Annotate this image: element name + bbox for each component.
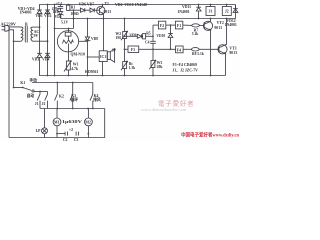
svg-text:VD3: VD3 [32,57,39,61]
zener VD5 [58,12,64,16]
wire plug to mains drop [9,30,13,88]
wire sensor to IC [88,56,100,58]
wire bottom rail [9,109,105,138]
wire heater feed [54,5,56,76]
wire bridge right leg [47,5,49,76]
svg-text:VD8: VD8 [91,37,98,41]
svg-text:VD11: VD11 [182,5,191,9]
wire capacitor branch [57,133,65,135]
potentiometer W1 [68,52,70,61]
IC1 box [103,19,105,51]
wire bridge left leg [39,14,41,54]
svg-text:VD6 VD7: VD6 VD7 [79,2,95,6]
svg-text:K3: K3 [71,94,76,98]
svg-text:J1: J1 [209,10,213,14]
svg-text:1N4001: 1N4001 [177,10,189,14]
relay contact J1 [39,92,41,95]
svg-text:C2: C2 [63,138,68,141]
svg-text:1M: 1M [115,36,121,40]
diode VD10 [170,25,172,33]
relay contact J2 [47,92,49,95]
diode VD9 [137,34,141,38]
capacitor C2 [65,132,67,136]
wire motor rail [40,108,105,110]
wire right rail [235,5,237,19]
svg-text:1N4001: 1N4001 [20,11,32,15]
svg-text:R5: R5 [146,31,151,35]
wire mains neutral drop [8,27,10,138]
switch K2 [56,83,58,95]
svg-text:手动: 手动 [29,78,37,83]
svg-text:20k: 20k [157,65,164,69]
svg-text:R8 5.1k: R8 5.1k [192,52,204,56]
node dots top rail [47,4,228,6]
svg-text:AC220V: AC220V [1,21,16,26]
capacitor C4 [150,41,156,43]
svg-text:9013: 9013 [229,51,237,55]
svg-text:VD4: VD4 [42,57,49,61]
svg-text:KD9561: KD9561 [85,70,98,74]
svg-text:SP: SP [112,49,117,53]
svg-text:F1: F1 [177,24,181,28]
diode VD3 [37,53,42,57]
transformer B secondary [31,27,33,41]
diode VD12 [233,9,238,13]
relay coil J2 [222,7,231,16]
potentiometer W3 [151,61,155,68]
wire top rail VDD [40,5,236,10]
switch K1 [14,87,23,89]
svg-text:9013: 9013 [104,10,112,14]
resistor R5 [142,35,143,37]
capacitor C3 [76,132,78,136]
wire F2 input node [152,25,154,41]
svg-text:LP: LP [36,129,42,133]
svg-text:9013: 9013 [214,26,222,30]
transistor VT1 [97,6,105,14]
diode VD4 [45,53,50,57]
transistor VT3 [218,45,227,54]
svg-text:M2: M2 [85,120,91,124]
transformer core [25,26,27,43]
motor M1 [56,109,58,119]
switch K3 [72,83,74,95]
svg-text:×2: ×2 [69,128,73,132]
svg-text:QM-N10: QM-N10 [71,52,85,56]
svg-text:16V: 16V [53,10,60,14]
wire primary bottom [14,40,21,42]
diode VD1 [37,10,42,14]
svg-text:M1: M1 [54,120,60,124]
svg-text:J1: J1 [35,102,39,106]
svg-text:T1: T1 [105,2,110,6]
svg-text:C3: C3 [74,138,79,141]
gas sensor QM-N10 [57,31,78,52]
svg-text:J2: J2 [225,10,229,14]
potentiometer W2 [124,19,126,32]
svg-text:VD10: VD10 [156,34,165,38]
svg-text:R1: R1 [71,5,76,9]
transformer B primary [20,27,23,41]
diode VD2 [45,10,50,14]
svg-text:F3: F3 [131,48,135,52]
diode VD7 [90,8,94,12]
svg-text:VT2: VT2 [217,21,224,25]
svg-text:F4: F4 [177,48,181,52]
wire ground rail [40,58,226,76]
diode VD11 [198,5,200,8]
wire +5V rail [61,18,236,20]
transistor VT2 [203,21,212,30]
plug AC220V [2,25,10,31]
inverter F1 [175,21,182,29]
svg-text:K4: K4 [94,94,99,98]
svg-text:排风: 排风 [93,97,101,102]
svg-text:VD5: VD5 [55,15,62,19]
svg-text:中国电子爱好者www.dzdiy.cn: 中国电子爱好者www.dzdiy.cn [181,131,239,138]
wire auto bus [34,91,47,93]
node dots ground rail [47,75,212,77]
svg-text:F2: F2 [160,24,164,28]
svg-text:5.1V: 5.1V [61,20,68,24]
svg-text:F1~F4 CD4069: F1~F4 CD4069 [173,63,198,67]
switch K4 [92,83,94,95]
svg-text:自动: 自动 [27,93,35,98]
speaker SP [106,55,109,57]
zener VD8 [87,19,89,37]
inverter F2 [158,21,165,29]
svg-text:VD2: VD2 [44,14,51,18]
svg-text:www.dianzaihaozhe.com: www.dianzaihaozhe.com [141,107,187,112]
wire secondary bottom to bridge [33,40,48,42]
svg-text:100Ω: 100Ω [70,12,78,16]
node dots 5V rail [73,18,228,20]
svg-text:J1、J2 JZC-7V: J1、J2 JZC-7V [173,69,199,73]
capacitor C1 [60,5,62,7]
potentiometer Rt [123,62,127,69]
relay coil J1 [206,7,215,16]
svg-text:C4: C4 [145,41,150,45]
svg-text:1N4001: 1N4001 [225,23,237,27]
wire secondary top to bridge [33,26,40,28]
svg-text:IC1: IC1 [100,55,106,59]
wire R1 tap down [73,10,75,28]
svg-text:1μ630V: 1μ630V [62,120,82,124]
wire plug to primary top [9,26,20,28]
svg-text:電子愛好者: 電子愛好者 [158,98,194,107]
svg-text:4.7k: 4.7k [71,67,79,71]
svg-text:VD9: VD9 [129,33,136,37]
svg-text:循环: 循环 [70,97,79,102]
motor M2 [87,109,89,119]
resistor R8 [183,48,191,50]
svg-text:VD1: VD1 [35,14,42,18]
inverter F3 [128,46,139,53]
svg-text:+C1: +C1 [55,2,62,6]
svg-text:VT3: VT3 [229,47,236,51]
watermark [141,98,239,138]
svg-text:VD6~VD10 1N4148: VD6~VD10 1N4148 [115,3,147,7]
svg-text:J2: J2 [42,102,46,106]
wire VD9 branch [125,35,138,37]
wire manual bus [32,82,93,84]
svg-text:W1: W1 [73,63,79,67]
svg-text:9V: 9V [34,34,39,38]
svg-text:K1: K1 [20,81,25,85]
svg-text:5.1k: 5.1k [192,32,199,36]
diode VD6 [81,8,85,12]
resistor R7 [183,24,192,26]
svg-text:K2: K2 [59,94,64,98]
inverter F4 [176,46,184,53]
resistor R1 [68,4,70,7]
lamp LP [44,109,46,128]
svg-text:1.3k: 1.3k [129,66,136,70]
